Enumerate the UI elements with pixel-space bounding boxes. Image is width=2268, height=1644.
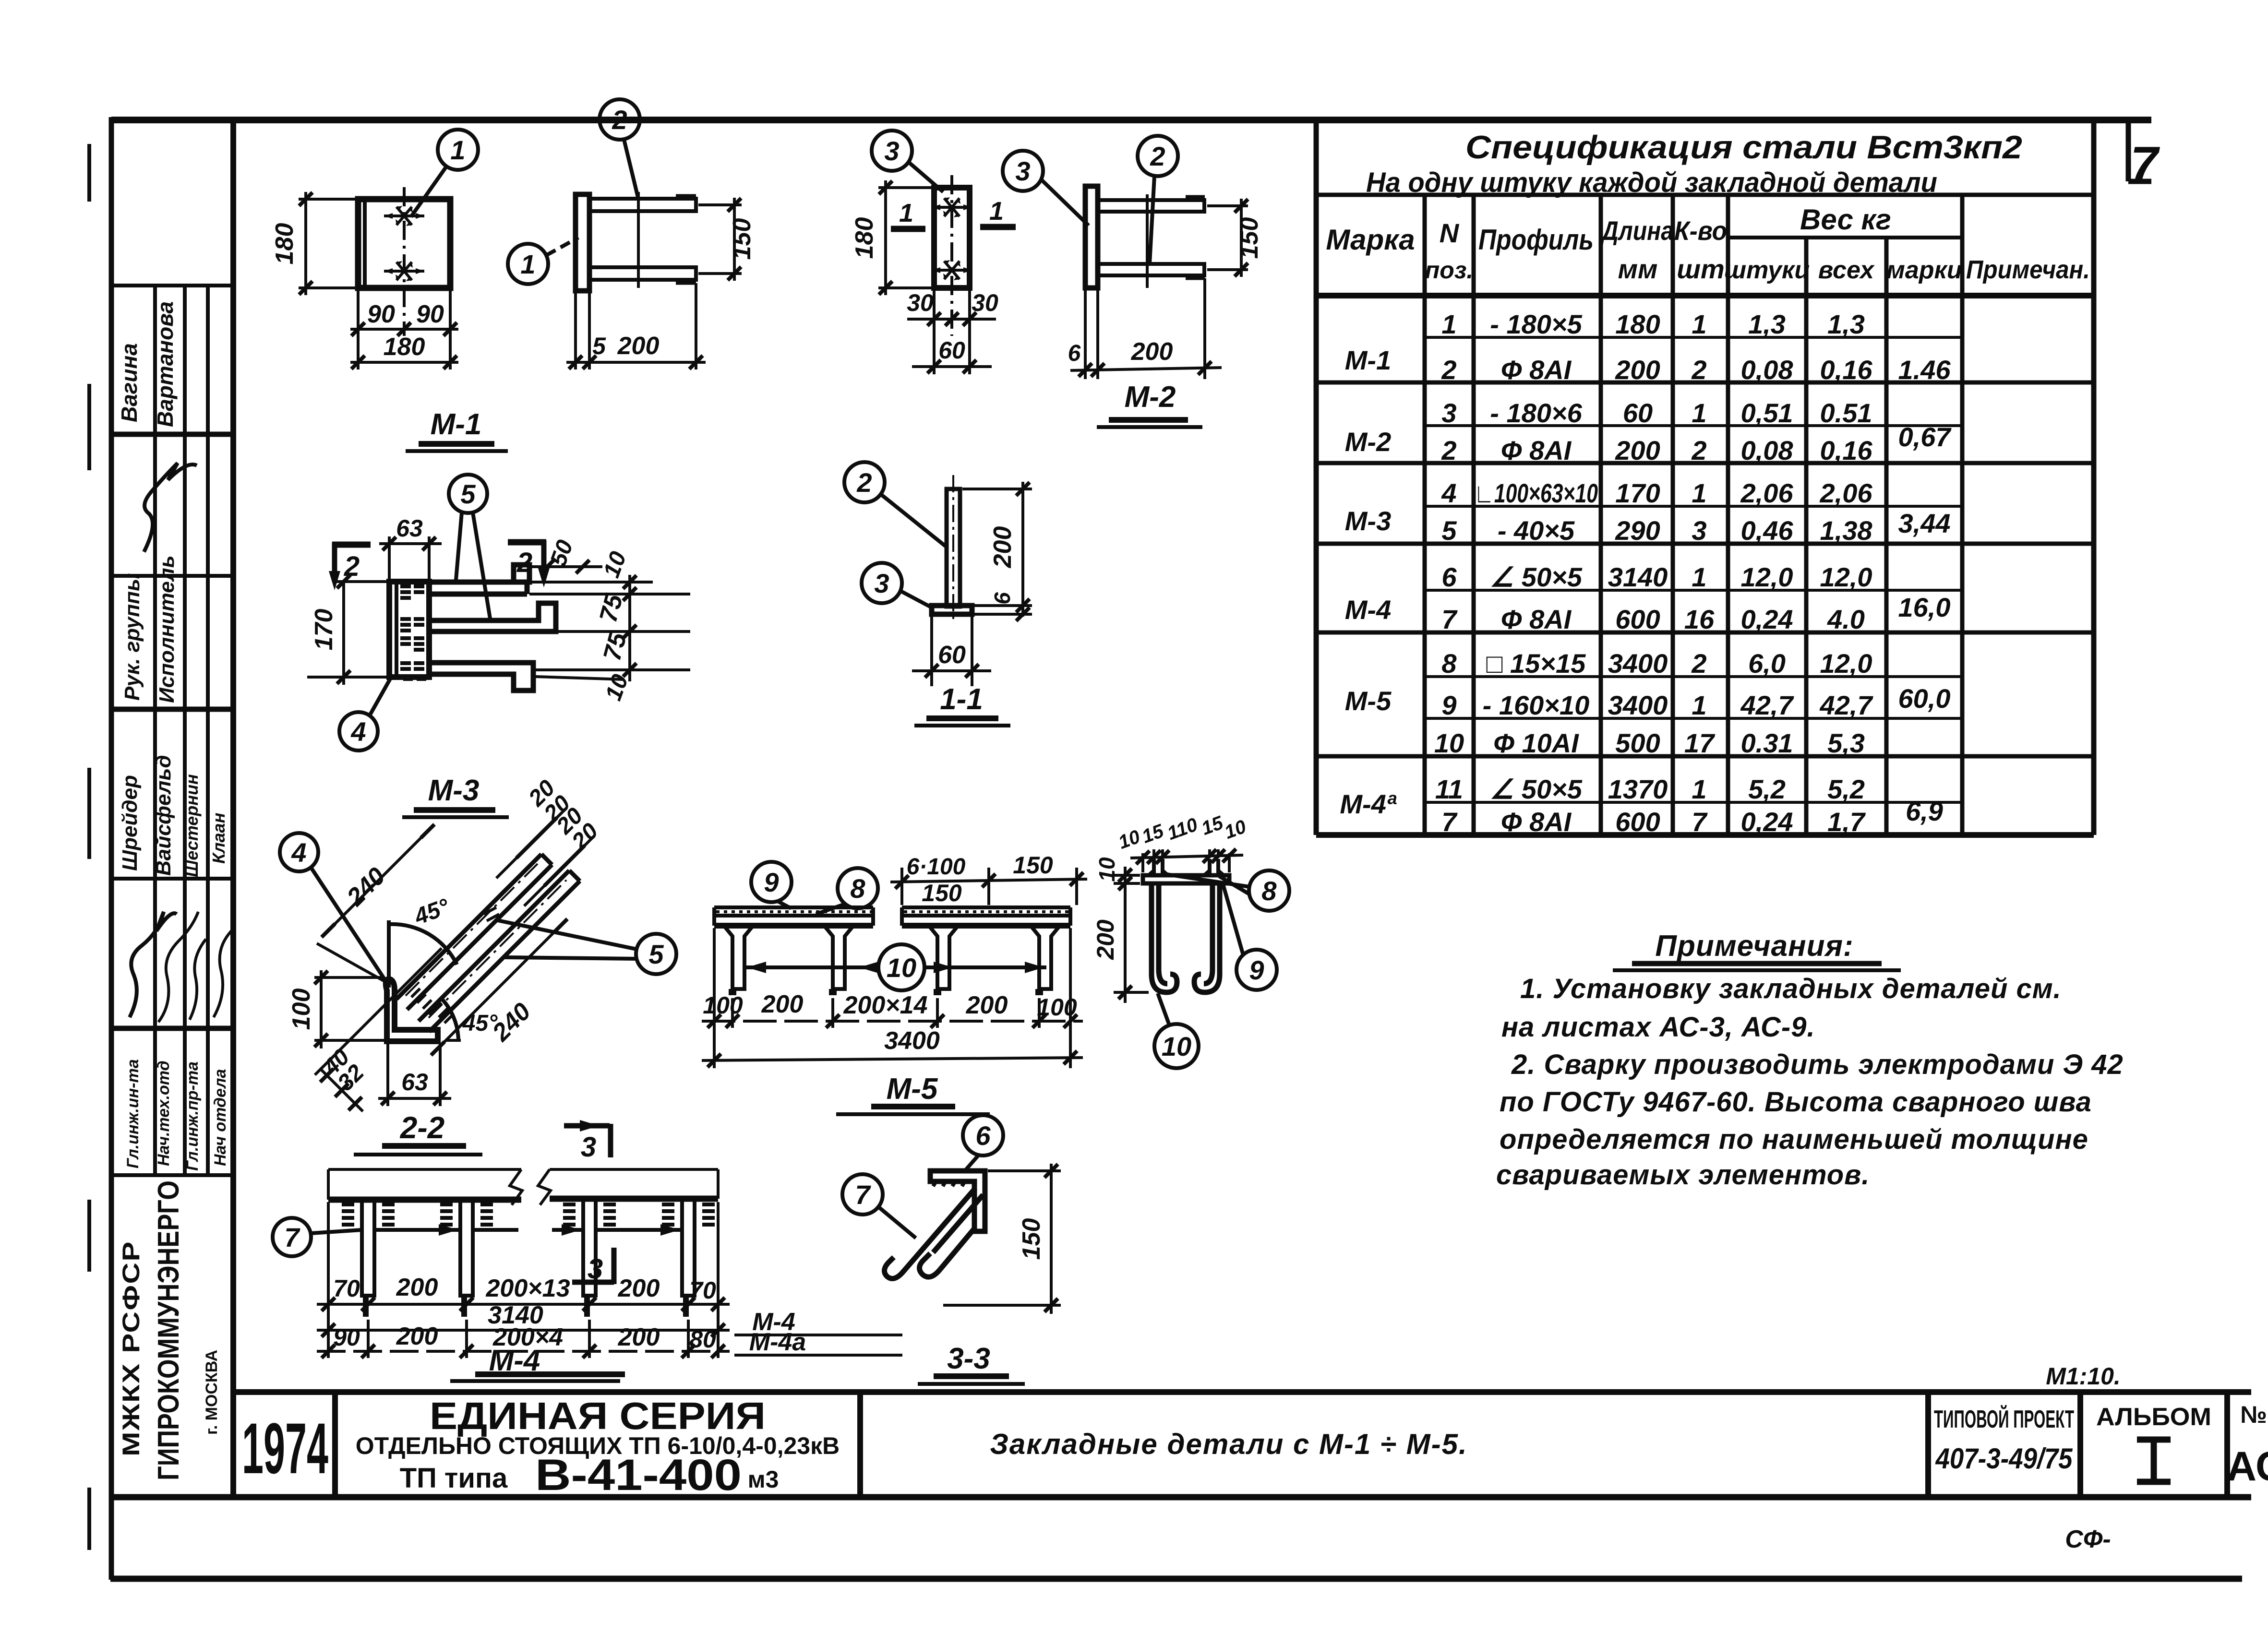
rod centerline [1146, 194, 1149, 288]
svg-text:М-4: М-4 [1345, 595, 1391, 625]
svg-text:Шрейдер: Шрейдер [118, 775, 142, 871]
svg-text:2: 2 [1150, 141, 1165, 171]
angle 45 upper [387, 920, 391, 988]
svg-text:4.0: 4.0 [1827, 604, 1865, 634]
svg-text:170: 170 [1615, 478, 1660, 508]
sidebar signature scrawl 1 [144, 463, 197, 552]
dim 40 32 lower-left [321, 1069, 363, 1111]
bar poz.5 front [396, 854, 552, 1010]
svg-text:Вес кг: Вес кг [1800, 203, 1891, 236]
svg-text:на листах АС-3, АС-9.: на листах АС-3, АС-9. [1501, 1012, 1815, 1043]
svg-text:200: 200 [618, 1275, 660, 1302]
svg-text:200: 200 [989, 526, 1017, 569]
angle bar poz.6 right segment [550, 1168, 718, 1171]
svg-text:М-5: М-5 [887, 1072, 938, 1106]
weld triangles [1146, 868, 1171, 875]
svg-text:200×14: 200×14 [843, 991, 928, 1019]
svg-text:180: 180 [1615, 309, 1660, 339]
svg-text:8: 8 [1261, 876, 1277, 906]
svg-text:1,3: 1,3 [1748, 309, 1786, 339]
svg-text:поз.: поз. [1425, 257, 1474, 284]
dim 50 top small [532, 565, 602, 568]
svg-text:200: 200 [761, 990, 804, 1018]
svg-text:Нач отдела: Нач отдела [211, 1069, 229, 1166]
svg-text:- 160×10: - 160×10 [1483, 690, 1590, 720]
hatch under plate [933, 1181, 965, 1186]
svg-text:8: 8 [850, 873, 865, 904]
svg-text:М-3: М-3 [428, 774, 480, 807]
svg-text:3: 3 [1692, 515, 1706, 546]
svg-text:200: 200 [966, 991, 1008, 1019]
svg-text:Ф 8АI: Ф 8АI [1501, 604, 1572, 634]
svg-text:АЛЬБОМ: АЛЬБОМ [2096, 1403, 2211, 1431]
anchor mark [384, 206, 424, 226]
svg-text:определяется по наименьшей: определяется по наименьшей толщине [1500, 1124, 2088, 1155]
svg-text:□ 15×15: □ 15×15 [1487, 648, 1586, 679]
svg-text:Клаан: Клаан [209, 812, 228, 864]
callout 3 [872, 131, 912, 171]
svg-text:3-3: 3-3 [947, 1342, 990, 1375]
svg-text:60,0: 60,0 [1898, 683, 1951, 714]
bar poz.5 rear [419, 870, 580, 1032]
svg-text:200: 200 [396, 1322, 438, 1350]
svg-text:мм: мм [1618, 254, 1658, 284]
svg-text:Рук. группы: Рук. группы [120, 573, 144, 701]
svg-text:3140: 3140 [1608, 562, 1668, 592]
callout 1 [438, 130, 478, 170]
dim 30 30 [933, 290, 936, 336]
svg-text:6: 6 [990, 592, 1015, 605]
svg-text:1,7: 1,7 [1827, 807, 1866, 837]
svg-text:Нач.тех.отд: Нач.тех.отд [155, 1060, 173, 1166]
svg-text:2,06: 2,06 [1820, 478, 1873, 508]
svg-text:170: 170 [310, 609, 338, 651]
rod poz.2 vertical [947, 489, 960, 607]
plate 180x60 poz.3 [934, 188, 970, 288]
svg-text:407-3-49/75: 407-3-49/75 [1935, 1442, 2073, 1475]
svg-text:Спецификация стали Вст3кп2: Спецификация стали Вст3кп2 [1465, 129, 2022, 166]
svg-text:90: 90 [416, 300, 444, 328]
svg-text:1: 1 [989, 197, 1004, 226]
callout 6 leader [963, 1115, 1003, 1156]
svg-text:СФ-: СФ- [2065, 1525, 2111, 1553]
dim 5 200 bottom [574, 293, 577, 369]
svg-text:Профиль: Профиль [1478, 224, 1594, 256]
label 3-3 [918, 1342, 1025, 1384]
svg-text:5: 5 [648, 939, 664, 969]
studs poz.10 [724, 926, 1060, 995]
svg-text:150: 150 [1013, 852, 1053, 879]
svg-text:0.51: 0.51 [1820, 398, 1872, 428]
angle bar poz.6 left segment [328, 1168, 521, 1171]
svg-text:- 40×5: - 40×5 [1498, 515, 1575, 546]
bar poz.5 middle [429, 603, 556, 631]
svg-text:АС: АС [2227, 1443, 2268, 1489]
section mark 1 right [980, 224, 1016, 230]
svg-text:1: 1 [1692, 774, 1706, 804]
callout 10 with arrows [878, 944, 924, 990]
dim chain 90 200 200x4 200 80 [317, 1350, 730, 1353]
svg-text:290: 290 [1615, 515, 1660, 546]
svg-text:∠ 50×5: ∠ 50×5 [1490, 774, 1583, 804]
callout 4 [280, 833, 318, 871]
callout 7 with arrows [273, 1218, 311, 1256]
specification table [1316, 120, 2094, 837]
svg-text:2. Сварку производить электр: 2. Сварку производить электродами Э 42 [1511, 1049, 2124, 1080]
callout 3 [862, 563, 902, 603]
svg-text:Ф 8АI: Ф 8АI [1501, 355, 1572, 385]
label 2-2 [354, 1110, 482, 1155]
svg-text:2: 2 [1691, 648, 1706, 679]
svg-text:- 180×6: - 180×6 [1490, 398, 1582, 428]
plate poz.9 left segment [714, 907, 873, 926]
svg-text:200×13: 200×13 [486, 1275, 570, 1302]
svg-text:5: 5 [592, 333, 606, 359]
svg-text:2: 2 [1441, 435, 1456, 465]
plate 180x180 poz.1 [358, 199, 450, 288]
detail M-1 side view [508, 99, 756, 369]
svg-text:200: 200 [1092, 919, 1119, 960]
break mark left [510, 1169, 522, 1205]
label M-1 [406, 408, 508, 451]
svg-text:5: 5 [1441, 515, 1457, 546]
angle poz.4 section [386, 979, 438, 1041]
dim 63 bottom [386, 1044, 389, 1106]
svg-text:5,2: 5,2 [1827, 774, 1865, 804]
callout 4 [339, 712, 378, 751]
svg-text:Длина: Длина [1600, 215, 1674, 246]
dim 60 bottom [930, 617, 933, 686]
dim 100 left [314, 976, 384, 979]
svg-text:200: 200 [617, 332, 660, 360]
svg-text:1.46: 1.46 [1898, 355, 1951, 385]
svg-text:М-4ª: М-4ª [1340, 789, 1396, 819]
svg-text:1: 1 [1441, 309, 1456, 339]
dim 150 right [1207, 204, 1248, 207]
svg-text:2: 2 [1691, 435, 1706, 465]
svg-text:7: 7 [1441, 807, 1458, 837]
detail M-5 cross-section [1092, 812, 1289, 1068]
svg-text:1-1: 1-1 [940, 683, 983, 716]
svg-text:6,9: 6,9 [1906, 796, 1943, 826]
svg-text:0,16: 0,16 [1820, 355, 1873, 385]
cut mark bar1 [484, 907, 499, 921]
svg-text:0,24: 0,24 [1741, 604, 1793, 634]
dim 3140 [317, 1329, 730, 1332]
svg-text:М-1: М-1 [1345, 345, 1391, 375]
svg-text:- 180×5: - 180×5 [1490, 309, 1582, 339]
svg-text:150: 150 [922, 880, 962, 906]
svg-text:0,46: 0,46 [1741, 515, 1794, 546]
callout 8 [838, 868, 878, 908]
svg-text:7: 7 [2130, 137, 2160, 192]
svg-text:200: 200 [396, 1274, 438, 1301]
studs poz.7 [362, 1200, 695, 1317]
svg-text:5,2: 5,2 [1748, 774, 1786, 804]
svg-text:2: 2 [516, 547, 532, 578]
svg-text:3400: 3400 [884, 1027, 940, 1055]
svg-text:10: 10 [1162, 1031, 1191, 1061]
svg-text:1: 1 [450, 135, 465, 165]
table rows text [1340, 309, 1952, 837]
svg-text:Гл.инж.пр-та: Гл.инж.пр-та [183, 1061, 202, 1171]
svg-text:Ф 8АI: Ф 8АI [1501, 435, 1572, 465]
dim 90,90 [357, 290, 360, 336]
svg-text:2: 2 [1441, 355, 1456, 385]
page number 7 corner bracket [2128, 121, 2160, 192]
svg-text:Гл.инж.ин-та: Гл.инж.ин-та [124, 1059, 142, 1168]
svg-text:100: 100 [703, 992, 743, 1019]
svg-text:N: N [1440, 218, 1460, 248]
svg-text:Примечан.: Примечан. [1966, 255, 2090, 284]
svg-text:Примечания:: Примечания: [1655, 929, 1853, 963]
svg-text:180: 180 [851, 217, 878, 259]
svg-text:3: 3 [874, 568, 889, 598]
callout 7 [842, 1174, 883, 1215]
angle 45 lower [341, 1039, 463, 1042]
detail M-1 plan view [271, 130, 478, 369]
section mark 2 right [508, 539, 546, 546]
svg-text:Вартанова: Вартанова [153, 301, 178, 427]
svg-text:0,16: 0,16 [1820, 435, 1873, 465]
svg-text:63: 63 [401, 1069, 428, 1096]
svg-text:9: 9 [1249, 955, 1264, 985]
svg-text:∠ 50×5: ∠ 50×5 [1490, 562, 1583, 592]
svg-text:Закладные детали с М-1 ÷ М-: Закладные детали с М-1 ÷ М-5. [990, 1428, 1467, 1460]
svg-text:1. Установку закладных детал: 1. Установку закладных деталей см. [1520, 973, 2062, 1004]
svg-text:63: 63 [396, 515, 423, 542]
dim 150 right [698, 203, 742, 206]
svg-text:100: 100 [288, 989, 315, 1030]
svg-text:2: 2 [856, 467, 872, 498]
left dims 10 200 [1114, 874, 1140, 877]
header verticals [1423, 195, 1427, 835]
svg-text:2: 2 [1691, 355, 1706, 385]
svg-text:3: 3 [581, 1132, 596, 1163]
section 2-2 view [280, 775, 676, 1111]
rod poz.2 top [1098, 200, 1204, 212]
plate poz.9 section [1143, 875, 1229, 883]
dim 63 top [388, 536, 391, 579]
label M-4 [450, 1344, 625, 1381]
svg-text:0,08: 0,08 [1741, 435, 1794, 465]
notes [1496, 929, 2124, 1191]
svg-text:180: 180 [271, 223, 299, 265]
svg-text:3: 3 [1015, 156, 1030, 186]
svg-text:3,44: 3,44 [1898, 508, 1951, 538]
title block [233, 1363, 2268, 1553]
row group lines [1425, 336, 1962, 339]
svg-text:60: 60 [938, 641, 966, 669]
svg-text:3400: 3400 [1608, 648, 1668, 679]
bar poz.5 top [429, 565, 529, 582]
svg-text:90: 90 [333, 1324, 360, 1351]
callout 10 [1154, 1024, 1199, 1068]
weld combs at studs [342, 1204, 715, 1225]
dim 150 [988, 1169, 1061, 1172]
svg-text:М-4а: М-4а [749, 1328, 806, 1356]
svg-text:ТИПОВОЙ ПРОЕКТ: ТИПОВОЙ ПРОЕКТ [1934, 1405, 2074, 1433]
svg-text:ГИПРОКОММУНЭНЕРГО: ГИПРОКОММУНЭНЕРГО [152, 1180, 185, 1480]
dim 200 right [962, 488, 1032, 490]
svg-text:1: 1 [1692, 398, 1706, 428]
svg-text:60: 60 [938, 337, 965, 364]
svg-text:7: 7 [284, 1222, 300, 1252]
callout 2 [844, 462, 885, 502]
callout 2 [1138, 136, 1178, 176]
svg-text:М-2: М-2 [1345, 427, 1391, 457]
svg-text:16: 16 [1684, 604, 1715, 634]
section mark 1 left [891, 226, 925, 232]
label 1-1 [914, 683, 1010, 726]
svg-text:1: 1 [1692, 562, 1706, 592]
rod poz.2 bottom [589, 267, 696, 280]
dim 3400 [702, 1058, 1083, 1060]
callout 5 [449, 475, 487, 513]
svg-text:16,0: 16,0 [1898, 592, 1951, 622]
sidebar signature scrawls 2 [130, 912, 177, 1017]
svg-text:600: 600 [1615, 807, 1660, 837]
svg-text:200: 200 [1615, 355, 1660, 385]
plate edge poz.1 [576, 194, 589, 291]
svg-text:70: 70 [333, 1275, 360, 1302]
svg-text:3: 3 [884, 136, 899, 166]
svg-text:42,7: 42,7 [1740, 690, 1795, 720]
svg-text:3400: 3400 [1608, 690, 1668, 720]
svg-text:6: 6 [1068, 341, 1081, 366]
svg-text:ТП типа: ТП типа [400, 1463, 508, 1494]
break mark right [538, 1169, 551, 1205]
weld combs [400, 586, 426, 679]
callout 3 [1003, 151, 1043, 191]
svg-text:5: 5 [460, 479, 476, 509]
anchor mark [932, 197, 972, 217]
svg-text:Исполнитель: Исполнитель [155, 555, 179, 703]
svg-text:м3: м3 [748, 1466, 779, 1493]
svg-text:80: 80 [689, 1326, 716, 1353]
bar poz.5 bottom [429, 663, 533, 691]
svg-text:200: 200 [1615, 435, 1660, 465]
svg-text:150: 150 [1018, 1218, 1045, 1260]
svg-text:1370: 1370 [1608, 774, 1668, 804]
callout 5 [636, 934, 676, 974]
svg-text:ЕДИНАЯ СЕРИЯ: ЕДИНАЯ СЕРИЯ [430, 1394, 766, 1437]
svg-text:1: 1 [1692, 690, 1706, 720]
svg-text:150: 150 [1236, 217, 1263, 259]
sidebar signature table [111, 286, 2251, 1497]
dim 180 bottom [357, 336, 360, 369]
svg-text:1: 1 [520, 249, 535, 279]
channel poz.8 with hooks [1152, 883, 1177, 992]
centerline [403, 187, 406, 336]
svg-text:10: 10 [1094, 857, 1119, 882]
svg-text:В-41-400: В-41-400 [535, 1451, 742, 1500]
svg-text:∟100×63×10: ∟100×63×10 [1474, 478, 1598, 508]
callout 9 [751, 862, 792, 902]
svg-text:К-во: К-во [1674, 215, 1727, 246]
svg-text:1,3: 1,3 [1827, 309, 1865, 339]
svg-text:12,0: 12,0 [1741, 562, 1793, 592]
anchor mark [932, 260, 972, 280]
dim 180 left [299, 198, 358, 201]
svg-text:12,0: 12,0 [1820, 648, 1872, 679]
svg-text:№: № [2240, 1401, 2267, 1428]
callout 9 [1236, 950, 1277, 990]
bent plate poz.6 [930, 1171, 985, 1231]
centerline [950, 175, 953, 336]
svg-text:8: 8 [1441, 648, 1457, 679]
detail M-5 view [702, 852, 1087, 1068]
detail M-3 view [307, 475, 690, 751]
svg-text:2: 2 [612, 105, 627, 135]
label M-5 [836, 1072, 990, 1114]
svg-text:100: 100 [1037, 994, 1077, 1021]
svg-text:7: 7 [1441, 604, 1458, 634]
svg-text:1: 1 [1692, 309, 1706, 339]
svg-text:12,0: 12,0 [1820, 562, 1872, 592]
svg-text:1974: 1974 [242, 1408, 328, 1489]
svg-text:4: 4 [291, 837, 306, 868]
svg-text:2,06: 2,06 [1740, 478, 1794, 508]
svg-text:6,0: 6,0 [1748, 648, 1786, 679]
svg-text:М-2: М-2 [1125, 381, 1176, 414]
svg-text:марки: марки [1886, 256, 1962, 284]
svg-text:Вагина: Вагина [117, 343, 142, 422]
svg-text:9: 9 [1441, 690, 1456, 720]
rod poz.2 top [589, 199, 696, 211]
svg-text:30: 30 [907, 289, 934, 316]
svg-text:30: 30 [972, 289, 998, 316]
svg-text:Шестернин: Шестернин [182, 774, 202, 877]
svg-text:Вайсфельд: Вайсфельд [152, 755, 175, 876]
svg-text:10: 10 [1434, 728, 1464, 758]
svg-text:10: 10 [887, 953, 916, 983]
dim chain 70 200 200x13 200 70 [317, 1202, 730, 1358]
svg-text:г. МОСКВА: г. МОСКВА [203, 1350, 221, 1435]
svg-text:0,51: 0,51 [1741, 398, 1793, 428]
section 3-3 view [842, 1115, 1061, 1314]
svg-text:Ф 8АI: Ф 8АI [1501, 807, 1572, 837]
dim 240 lower [431, 919, 567, 1055]
svg-text:М-1: М-1 [431, 408, 482, 441]
dim 240 upper [322, 824, 434, 937]
label M-3 [402, 774, 509, 817]
svg-text:Марка: Марка [1326, 224, 1415, 256]
svg-text:150: 150 [728, 218, 756, 260]
svg-text:200: 200 [1131, 338, 1173, 366]
detail M-4 view [273, 1169, 902, 1358]
rod centerline [637, 192, 640, 288]
rod poz.2 bottom [1098, 264, 1204, 275]
svg-text:1: 1 [1692, 478, 1706, 508]
svg-text:180: 180 [384, 333, 425, 361]
callout 1 [508, 244, 548, 284]
callout 2 [600, 99, 640, 140]
svg-text:штуки: штуки [1724, 256, 1810, 284]
dim 60 [933, 336, 936, 374]
dim 170 left [336, 580, 387, 583]
plate poz.9 right segment [902, 907, 1070, 926]
svg-text:0,67: 0,67 [1898, 422, 1952, 452]
svg-text:42,7: 42,7 [1820, 690, 1874, 720]
dim 20 20 bar1 end [496, 808, 566, 878]
svg-text:7: 7 [1692, 807, 1708, 837]
bottom dim chain 100 200 200x14 200 100 [702, 928, 1083, 1068]
svg-text:0,24: 0,24 [1741, 807, 1793, 837]
weld hatch on bars [411, 989, 453, 1023]
svg-text:1,38: 1,38 [1820, 515, 1873, 546]
svg-text:3: 3 [1441, 398, 1456, 428]
